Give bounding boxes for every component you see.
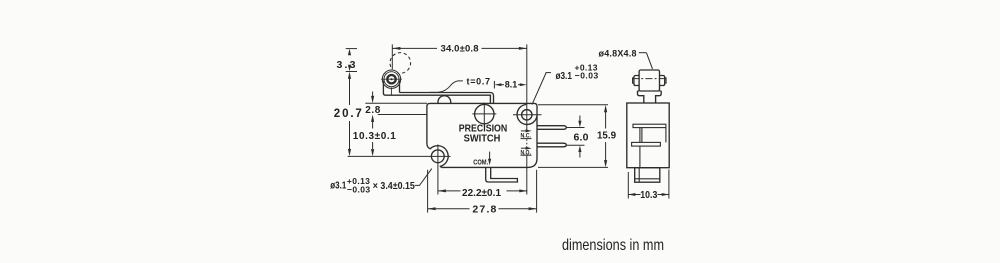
svg-text:ø3.1: ø3.1 — [555, 70, 572, 82]
svg-text:8.1: 8.1 — [505, 79, 518, 89]
svg-text:34.0±0.8: 34.0±0.8 — [441, 43, 479, 54]
svg-text:20.7: 20.7 — [334, 108, 362, 120]
svg-text:× 3.4±0.15: × 3.4±0.15 — [373, 181, 415, 192]
svg-text:−0.03: −0.03 — [347, 185, 370, 195]
svg-text:2.8: 2.8 — [365, 105, 380, 116]
svg-text:−0.03: −0.03 — [575, 70, 599, 80]
svg-text:COM.: COM. — [473, 160, 488, 167]
svg-text:22.2±0.1: 22.2±0.1 — [462, 188, 501, 199]
svg-text:N.C.: N.C. — [520, 134, 531, 140]
svg-text:3.3: 3.3 — [337, 59, 356, 71]
svg-text:15.9: 15.9 — [597, 130, 616, 142]
svg-text:6.0: 6.0 — [574, 132, 589, 144]
svg-text:t=0.7: t=0.7 — [467, 76, 491, 86]
svg-text:dimensions in mm: dimensions in mm — [562, 237, 664, 254]
svg-text:SWITCH: SWITCH — [464, 132, 501, 144]
svg-text:27.8: 27.8 — [472, 203, 496, 215]
svg-text:ø3.1: ø3.1 — [330, 180, 346, 192]
svg-text:N.O.: N.O. — [520, 150, 531, 156]
svg-text:10.3: 10.3 — [640, 189, 657, 201]
svg-text:10.3±0.1: 10.3±0.1 — [353, 131, 396, 142]
svg-text:ø4.8X4.8: ø4.8X4.8 — [599, 49, 637, 59]
